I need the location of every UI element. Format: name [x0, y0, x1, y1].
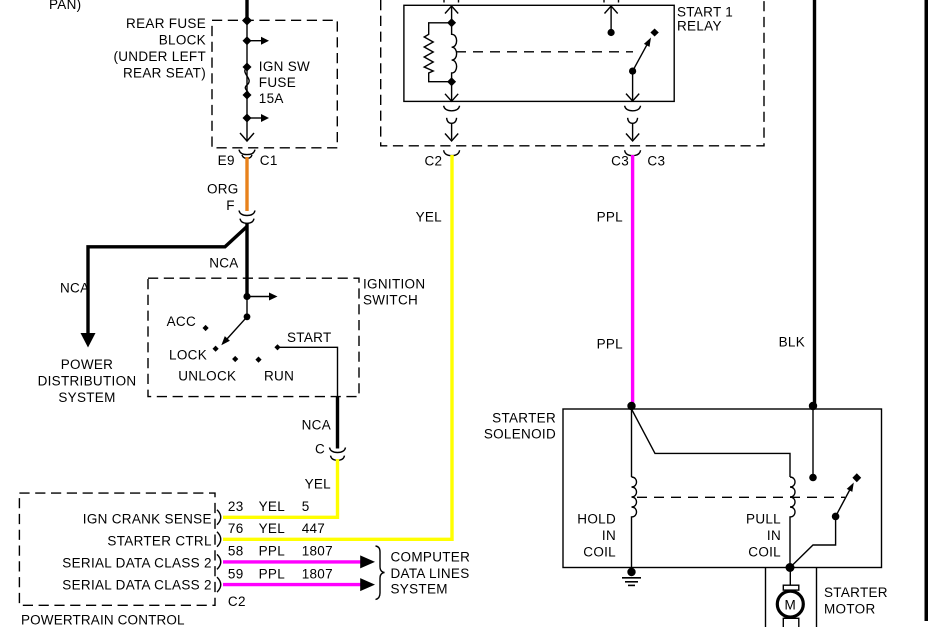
- svg-text:BLOCK: BLOCK: [159, 32, 206, 47]
- wire PPL serial data 59: [223, 583, 361, 586]
- page border bar right edge: [925, 0, 928, 621]
- rear fuse block dashed box: [212, 20, 337, 148]
- svg-text:MOTOR: MOTOR: [824, 602, 876, 617]
- wire battery feed (thick black, top): [245, 0, 248, 21]
- svg-text:BLK: BLK: [779, 335, 805, 350]
- svg-text:PAN): PAN): [49, 0, 81, 12]
- svg-text:FUSE: FUSE: [259, 75, 296, 90]
- wire to pull in coil: [632, 409, 791, 477]
- svg-text:C3: C3: [611, 153, 629, 168]
- svg-text:15A: 15A: [259, 91, 284, 106]
- junction with right tap arrow (upper): [243, 36, 252, 45]
- wire from switch arm to motor junction: [790, 516, 836, 567]
- wire from START contact to box edge: [280, 347, 338, 396]
- arrow to POWER DISTRIBUTION SYSTEM: [81, 333, 96, 348]
- relay coil terminal stubs above box: [443, 0, 445, 3]
- svg-text:SOLENOID: SOLENOID: [484, 427, 556, 442]
- svg-text:PPL: PPL: [597, 337, 624, 352]
- wire PPL serial data 58: [223, 560, 361, 563]
- svg-text:1807: 1807: [302, 544, 333, 559]
- svg-text:IGN CRANK SENSE: IGN CRANK SENSE: [83, 511, 212, 526]
- svg-text:447: 447: [302, 521, 325, 536]
- svg-text:COIL: COIL: [748, 545, 781, 560]
- svg-text:YEL: YEL: [305, 477, 332, 492]
- rear fuse block label: [113, 16, 206, 80]
- relay C2 output connector below box: [444, 106, 460, 111]
- ground under hold in coil: [627, 568, 635, 576]
- svg-text:START: START: [287, 330, 332, 345]
- svg-text:RELAY: RELAY: [677, 19, 722, 34]
- node PPL entry junction: [627, 402, 635, 410]
- solenoid switch arm: [836, 489, 851, 517]
- wire NCA branch to power distribution: [88, 227, 247, 339]
- starter solenoid box: [563, 409, 882, 568]
- svg-text:HOLD: HOLD: [577, 512, 616, 527]
- relay coil winding: [452, 23, 457, 82]
- svg-text:SERIAL DATA CLASS 2: SERIAL DATA CLASS 2: [62, 577, 212, 592]
- svg-text:PPL: PPL: [597, 210, 624, 225]
- relay mechanical link dashed: [456, 51, 633, 53]
- svg-text:SERIAL DATA CLASS 2: SERIAL DATA CLASS 2: [62, 555, 212, 570]
- relay resistor (parallel branch): [424, 23, 451, 82]
- svg-text:C: C: [315, 442, 325, 457]
- connector F: [239, 211, 255, 216]
- svg-text:1807: 1807: [302, 566, 333, 581]
- svg-text:C2: C2: [228, 594, 246, 609]
- junction with right tap arrow (lower): [243, 114, 252, 123]
- solenoid mechanical link dashed: [637, 496, 845, 498]
- start 1 relay outer dashed box: [381, 0, 764, 146]
- relay switch battery terminal arrow up: [605, 6, 618, 14]
- starter motor M symbol: [789, 568, 791, 586]
- svg-text:YEL: YEL: [259, 499, 286, 514]
- svg-text:DISTRIBUTION: DISTRIBUTION: [38, 374, 137, 389]
- hold in coil winding: [632, 477, 637, 568]
- svg-text:LOCK: LOCK: [169, 348, 207, 363]
- svg-text:PULL: PULL: [746, 512, 781, 527]
- svg-text:STARTER: STARTER: [824, 585, 888, 600]
- svg-text:STARTER CTRL: STARTER CTRL: [107, 533, 212, 548]
- svg-text:POWER: POWER: [61, 357, 114, 372]
- svg-text:POWERTRAIN CONTROL: POWERTRAIN CONTROL: [21, 613, 185, 627]
- connector C: [330, 448, 346, 453]
- svg-text:SYSTEM: SYSTEM: [391, 582, 448, 597]
- svg-text:C1: C1: [260, 153, 278, 168]
- wire NCA from F down to ignition switch: [245, 223, 248, 297]
- node motor junction: [786, 563, 795, 572]
- junction with right tap arrow inside ignition switch: [243, 293, 250, 300]
- svg-text:UNLOCK: UNLOCK: [178, 369, 236, 384]
- svg-text:ORG: ORG: [207, 182, 239, 197]
- svg-text:C3: C3: [647, 153, 665, 168]
- svg-text:REAR SEAT): REAR SEAT): [123, 65, 206, 80]
- svg-text:E9: E9: [218, 153, 235, 168]
- svg-text:F: F: [226, 198, 235, 213]
- wire YEL circuit 5 (pin 23 to connector C): [223, 459, 338, 517]
- svg-text:C2: C2: [424, 153, 442, 168]
- svg-text:59: 59: [228, 566, 244, 581]
- ignition switch dashed box: [148, 278, 359, 396]
- wire PPL from relay C3 to starter solenoid: [631, 155, 634, 405]
- connector E9 / C1: [239, 150, 255, 155]
- svg-text:DATA LINES: DATA LINES: [391, 566, 470, 581]
- solenoid switch fixed contact: [852, 473, 861, 482]
- svg-text:NCA: NCA: [302, 418, 331, 433]
- relay C3 output connector below box: [625, 106, 641, 111]
- svg-text:STARTER: STARTER: [492, 411, 556, 426]
- svg-text:COIL: COIL: [583, 545, 616, 560]
- wire to hold in coil: [631, 409, 633, 477]
- pull in coil winding: [790, 477, 795, 568]
- start 1 relay solid box: [404, 5, 674, 101]
- svg-text:SYSTEM: SYSTEM: [58, 390, 115, 405]
- wire inside fuse block: [246, 20, 248, 140]
- svg-text:COMPUTER: COMPUTER: [391, 549, 471, 564]
- svg-text:RUN: RUN: [264, 369, 294, 384]
- svg-text:IN: IN: [602, 528, 616, 543]
- wire BLK inside solenoid to switch contact: [812, 409, 814, 478]
- svg-text:IN: IN: [767, 528, 781, 543]
- powertrain control module dashed box: [19, 493, 215, 605]
- svg-text:REAR FUSE: REAR FUSE: [126, 16, 206, 31]
- svg-text:5: 5: [302, 499, 310, 514]
- svg-text:58: 58: [228, 544, 244, 559]
- ignition switch wiper arm toward LOCK: [227, 317, 248, 340]
- svg-text:23: 23: [228, 499, 244, 514]
- svg-text:YEL: YEL: [259, 521, 286, 536]
- svg-text:IGNITION: IGNITION: [363, 277, 425, 292]
- wire ORG: [245, 157, 248, 211]
- svg-text:NCA: NCA: [60, 281, 89, 296]
- fuse IGN SW FUSE 15A: [245, 67, 249, 95]
- svg-text:ACC: ACC: [167, 314, 196, 329]
- svg-text:IGN SW: IGN SW: [259, 59, 310, 74]
- svg-text:PPL: PPL: [259, 544, 286, 559]
- starter motor box (partial): [765, 568, 767, 627]
- svg-text:PPL: PPL: [259, 566, 286, 581]
- relay switch fixed contact: [650, 29, 658, 37]
- arrowhead down to fuse block exit: [240, 133, 254, 141]
- svg-text:START 1: START 1: [677, 5, 733, 20]
- junction on fuse block top edge: [242, 16, 252, 26]
- brace computer data lines: [376, 546, 385, 600]
- wire YEL circuit 447 vertical to relay C2: [223, 155, 452, 539]
- svg-text:M: M: [785, 597, 797, 612]
- svg-text:NCA: NCA: [209, 256, 238, 271]
- svg-text:76: 76: [228, 521, 244, 536]
- relay coil terminal arrow up: [445, 6, 458, 14]
- svg-text:SWITCH: SWITCH: [363, 293, 418, 308]
- relay switch terminal stubs above box: [603, 0, 605, 3]
- svg-text:(UNDER LEFT: (UNDER LEFT: [113, 49, 206, 64]
- wire NCA from ignition switch to connector C: [336, 396, 339, 449]
- svg-text:YEL: YEL: [416, 210, 443, 225]
- relay switch output arrow down: [632, 71, 634, 101]
- wire BLK from battery to starter solenoid: [813, 0, 816, 405]
- relay coil terminal arrow down: [451, 82, 453, 101]
- relay switch arm: [633, 43, 648, 71]
- node BLK entry junction: [809, 402, 817, 410]
